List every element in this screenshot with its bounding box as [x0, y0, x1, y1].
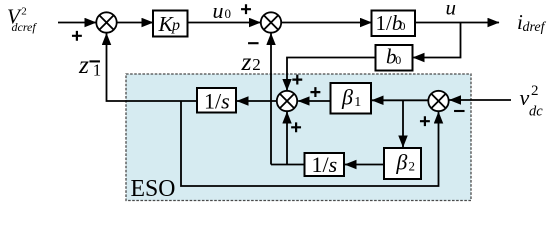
svg-text:1/s: 1/s: [312, 152, 338, 177]
svg-text:1/s: 1/s: [204, 89, 230, 114]
svg-text:2: 2: [409, 159, 416, 174]
svg-text:dcref: dcref: [12, 20, 38, 34]
svg-text:β: β: [395, 149, 407, 174]
svg-text:1/b: 1/b: [376, 11, 403, 35]
svg-text:dref: dref: [523, 20, 547, 35]
svg-text:2: 2: [252, 55, 260, 74]
svg-text:p: p: [171, 17, 180, 34]
svg-text:1: 1: [354, 95, 361, 110]
svg-text:u: u: [213, 0, 224, 23]
svg-text:u: u: [446, 0, 457, 20]
svg-text:0: 0: [400, 19, 406, 33]
svg-text:z: z: [241, 47, 252, 76]
svg-text:ESO: ESO: [131, 174, 176, 201]
svg-text:0: 0: [395, 53, 401, 67]
svg-text:0: 0: [225, 6, 232, 21]
svg-text:1: 1: [93, 60, 102, 79]
svg-text:2: 2: [21, 5, 27, 17]
svg-text:dc: dc: [529, 103, 543, 119]
svg-text:v: v: [520, 85, 530, 110]
svg-text:β: β: [341, 84, 353, 109]
svg-text:z: z: [78, 50, 89, 79]
svg-text:2: 2: [531, 83, 539, 99]
